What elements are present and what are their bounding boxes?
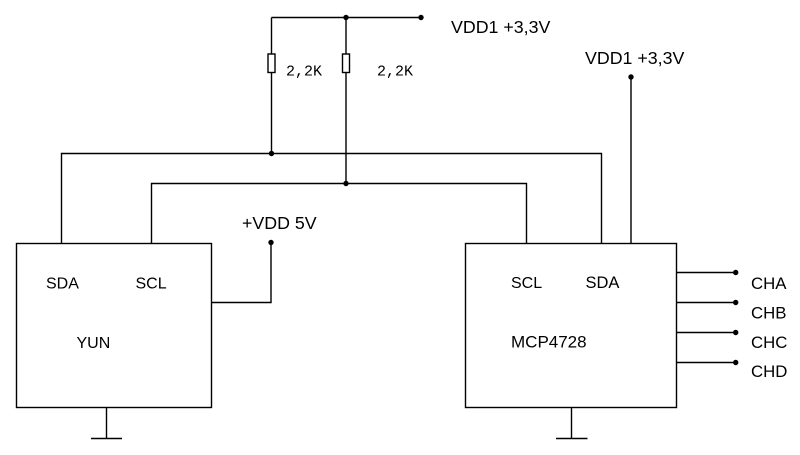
resistor R1 bbox=[268, 54, 275, 73]
node terminal +VDD 5V bbox=[268, 240, 273, 245]
resistor R2 bbox=[343, 54, 350, 73]
svg-text:SDA: SDA bbox=[586, 274, 620, 292]
ground of MCP4728 bbox=[556, 408, 588, 439]
wire top bus bbox=[272, 17, 422, 19]
node junction R2 to SCL net bbox=[343, 181, 348, 186]
pin CHD wire bbox=[677, 362, 736, 364]
IC U2 MCP4728 box bbox=[466, 244, 677, 408]
wire VDD1 to MCP4728 bbox=[630, 77, 632, 244]
wire R2 bottom lead bbox=[345, 73, 347, 184]
node terminal VDD1 right bbox=[628, 74, 633, 79]
node terminal CHB bbox=[733, 300, 738, 305]
svg-text:CHB: CHB bbox=[751, 303, 786, 322]
node terminal CHD bbox=[733, 360, 738, 365]
svg-text:MCP4728: MCP4728 bbox=[511, 332, 587, 351]
pin CHC wire bbox=[677, 332, 736, 334]
svg-text:CHA: CHA bbox=[751, 274, 787, 293]
wire SCL net bbox=[152, 184, 527, 245]
node terminal CHC bbox=[733, 330, 738, 335]
svg-text:+VDD 5V: +VDD 5V bbox=[242, 213, 317, 233]
node junction top bus bbox=[343, 15, 348, 20]
node junction R1 to SDA net bbox=[269, 151, 274, 156]
node terminal CHA bbox=[733, 270, 738, 275]
svg-text:2,2K: 2,2K bbox=[377, 64, 413, 81]
wire SDA net bbox=[62, 154, 602, 245]
IC U1 YUN box bbox=[17, 244, 212, 408]
wire R1 bottom lead bbox=[271, 73, 273, 154]
wire +VDD 5V to YUN bbox=[212, 243, 272, 303]
svg-text:VDD1 +3,3V: VDD1 +3,3V bbox=[585, 48, 684, 68]
wire R1 top lead bbox=[271, 18, 273, 55]
ground of YUN bbox=[91, 408, 122, 439]
svg-text:2,2K: 2,2K bbox=[286, 64, 322, 81]
svg-text:YUN: YUN bbox=[77, 335, 111, 352]
svg-text:SDA: SDA bbox=[46, 276, 79, 293]
svg-text:CHC: CHC bbox=[751, 333, 787, 352]
svg-text:SCL: SCL bbox=[511, 275, 542, 292]
pin CHB wire bbox=[677, 302, 736, 304]
svg-text:CHD: CHD bbox=[751, 362, 787, 381]
svg-text:SCL: SCL bbox=[136, 276, 167, 293]
wire R2 top lead bbox=[345, 18, 347, 55]
svg-text:VDD1 +3,3V: VDD1 +3,3V bbox=[451, 17, 550, 37]
node terminal VDD1 top bbox=[418, 15, 423, 20]
pin CHA wire bbox=[677, 272, 736, 274]
